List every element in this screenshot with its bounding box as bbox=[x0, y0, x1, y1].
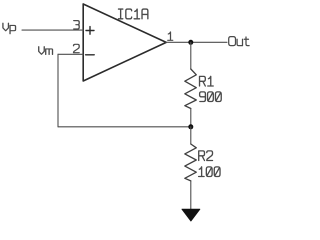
wire pin 2 stub bbox=[58, 53, 83, 55]
net label Vm bbox=[39, 47, 53, 55]
value 100 bbox=[199, 167, 220, 177]
label R1 bbox=[200, 76, 214, 86]
wire output bbox=[166, 41, 227, 43]
resistor R2 zigzag bbox=[185, 144, 197, 181]
wire feedback horizontal bbox=[58, 126, 191, 128]
net label Out bbox=[229, 37, 249, 46]
pin number 3 bbox=[74, 21, 79, 29]
wire output junction down to R1 bbox=[190, 42, 192, 69]
wire R1 bottom lead bbox=[190, 109, 192, 127]
junction node at feedback tap bbox=[188, 124, 193, 129]
wire Vp to pin 3 bbox=[22, 29, 83, 31]
net label Vp bbox=[3, 23, 16, 34]
pin number 2 bbox=[74, 44, 80, 52]
junction node at output bbox=[188, 40, 193, 45]
wire R2 to ground bbox=[190, 181, 192, 209]
op-amp U1 triangle body bbox=[83, 4, 166, 81]
wire feedback vertical bbox=[57, 54, 59, 127]
wire junction down to R2 bbox=[190, 127, 192, 144]
resistor R1 zigzag bbox=[185, 69, 197, 109]
label IC1A bbox=[118, 9, 147, 19]
op-amp non-inverting input marker + bbox=[86, 27, 94, 35]
ground symbol bbox=[182, 209, 200, 221]
label R2 bbox=[199, 151, 213, 161]
value 900 bbox=[200, 92, 222, 102]
pin number 1 bbox=[168, 32, 173, 40]
op-amp inverting input marker - bbox=[86, 54, 95, 56]
